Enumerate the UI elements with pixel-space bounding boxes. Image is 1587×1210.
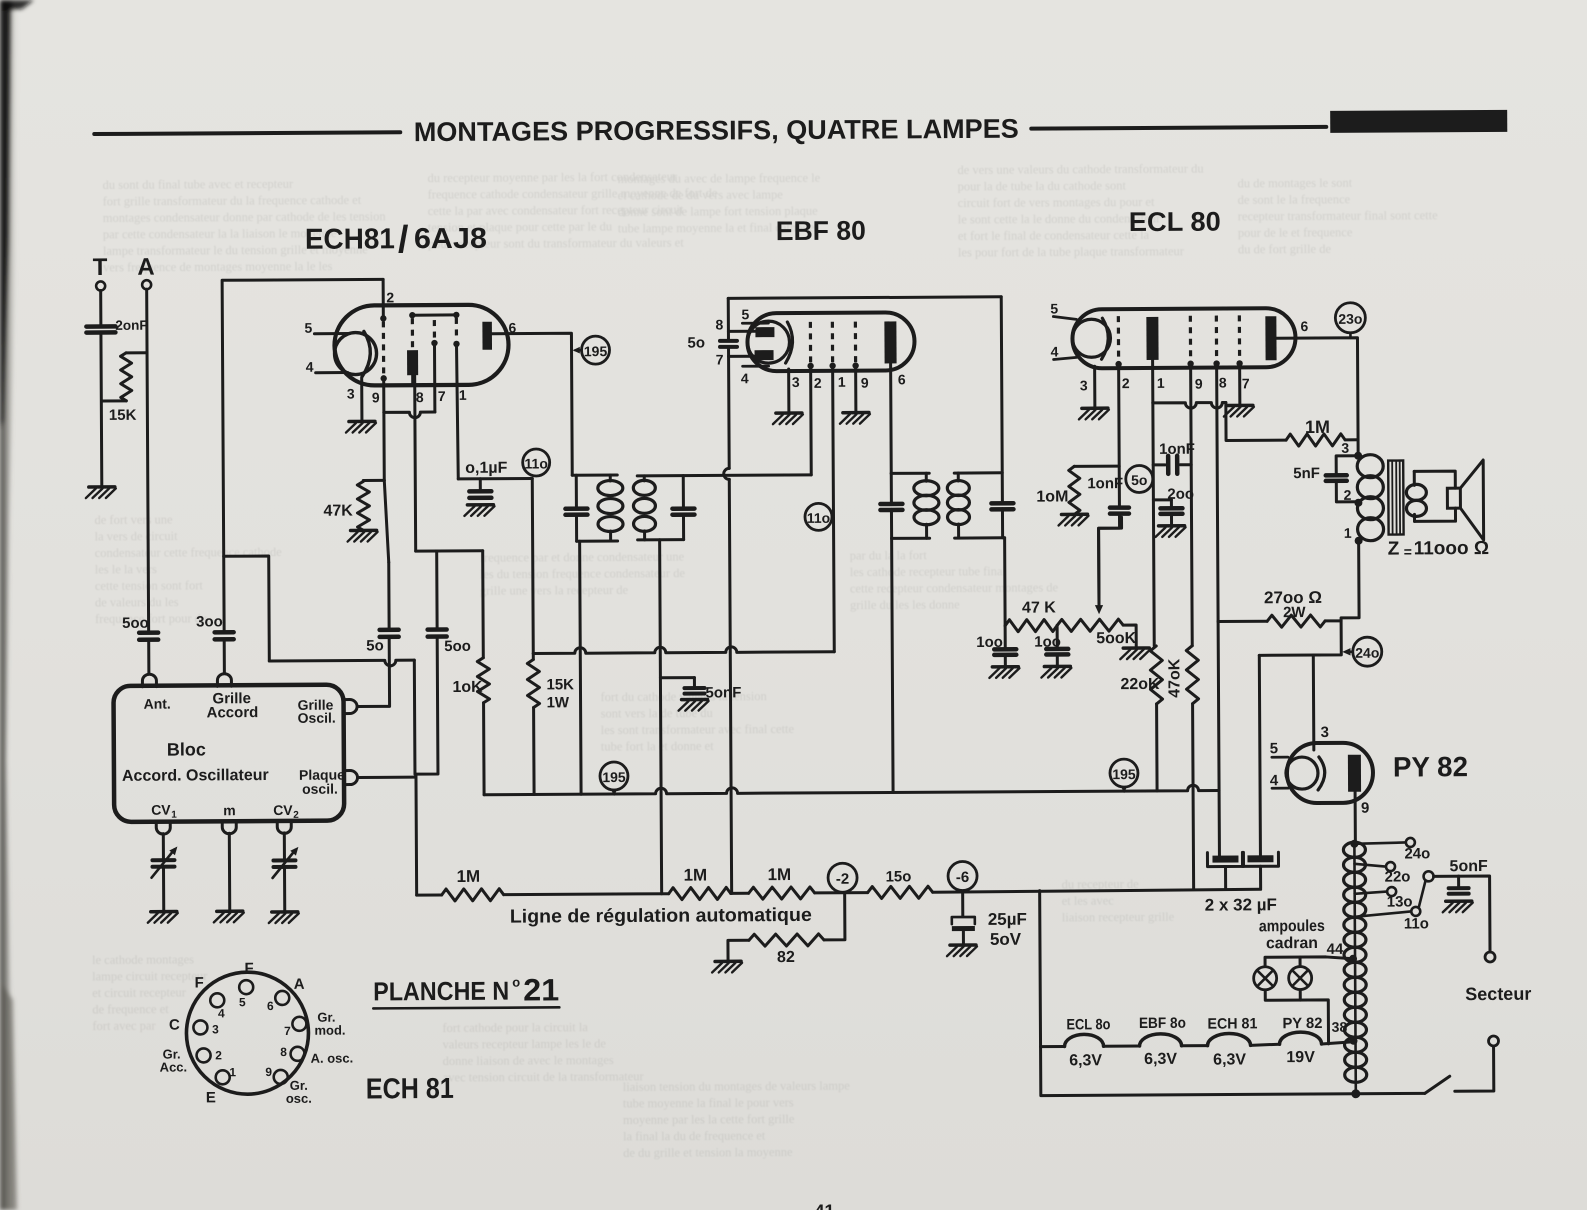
pot 500K right lead bbox=[1123, 625, 1136, 648]
voltmark 110 EBF80 bbox=[805, 503, 832, 530]
tube EBF80 label bbox=[776, 216, 866, 247]
voltmark -2 bbox=[828, 863, 857, 892]
ECH81 pin7 wire bbox=[433, 343, 436, 412]
wire 220K to bus bbox=[1155, 704, 1159, 791]
svg-text:cette recepteur condensateur m: cette recepteur condensateur montages de bbox=[850, 580, 1059, 595]
svg-text:m: m bbox=[223, 802, 236, 818]
svg-text:Oscil.: Oscil. bbox=[298, 710, 336, 726]
svg-text:/: / bbox=[398, 219, 409, 261]
socket pin number 1 bbox=[229, 1065, 236, 1079]
PY82 anode plate bbox=[1348, 755, 1361, 792]
ECL80 pin9 wire bbox=[1191, 364, 1193, 646]
capacitor 20nF bbox=[86, 326, 115, 332]
svg-text:6: 6 bbox=[1300, 318, 1308, 334]
resistor 47K bbox=[357, 481, 369, 530]
socket label A bbox=[294, 976, 305, 993]
svg-text:4: 4 bbox=[218, 1006, 225, 1020]
label 6.3V a bbox=[1069, 1052, 1102, 1069]
capacitor 0.1uF stub bbox=[479, 479, 482, 490]
svg-text:6,3V: 6,3V bbox=[1069, 1052, 1102, 1069]
ECL80 pin7 wire bbox=[1238, 363, 1241, 405]
svg-text:de sont le la frequence: de sont le la frequence bbox=[1238, 192, 1351, 207]
label ECL80 pin 9 bbox=[1195, 376, 1203, 392]
svg-text:lampe circuit recepteur: lampe circuit recepteur bbox=[92, 969, 208, 984]
label 10K bbox=[452, 679, 483, 696]
ECL80 triode anode plate bbox=[1146, 317, 1158, 360]
svg-text:-2: -2 bbox=[836, 871, 849, 888]
tap 220 wire bbox=[1354, 864, 1385, 867]
label 240 bbox=[1404, 845, 1430, 862]
svg-text:sont vers la de tube du: sont vers la de tube du bbox=[601, 706, 714, 721]
svg-text:Acc.: Acc. bbox=[160, 1059, 188, 1074]
socket label A osc bbox=[311, 1051, 354, 1066]
svg-text:du de montages le sont: du de montages le sont bbox=[1238, 176, 1353, 191]
EBF80 cathode circle bbox=[747, 321, 789, 363]
IFT2 primary top lead bbox=[891, 472, 929, 475]
resistor 15K 1W bbox=[527, 659, 539, 707]
socket pin number 9 bbox=[265, 1065, 272, 1079]
ground 82 bbox=[712, 961, 742, 972]
label 100 second bbox=[1034, 633, 1061, 650]
bloc terminal CV1 bump bbox=[156, 822, 170, 835]
IFT2 secondary bottom lead bbox=[955, 536, 1005, 539]
svg-text:par cette condensateur la la l: par cette condensateur la la liaison le … bbox=[103, 226, 337, 241]
svg-text:les pour fort de la tube plaqu: les pour fort de la tube plaque transfor… bbox=[958, 244, 1185, 259]
socket pin number 8 bbox=[280, 1045, 287, 1059]
svg-text:11o: 11o bbox=[807, 510, 830, 526]
capacitor 100 first stub bbox=[1004, 626, 1007, 648]
wire line 652 bbox=[533, 646, 834, 653]
wire 500pF hang bbox=[435, 551, 438, 628]
IFT1 primary bottom lead bbox=[577, 540, 618, 543]
tap 240 wire bbox=[1354, 842, 1405, 843]
resistor 15K top lead bbox=[126, 351, 147, 354]
label Plaque oscil. bbox=[299, 767, 345, 797]
ECL80 pin5 stub bbox=[1053, 316, 1076, 319]
svg-text:1W: 1W bbox=[547, 694, 570, 711]
tube ECH81 label bbox=[305, 219, 487, 262]
wire IFT2 right column bbox=[1001, 297, 1002, 538]
label heater EBF80 bbox=[1139, 1015, 1186, 1032]
bloc terminal m bump bbox=[222, 821, 236, 834]
label 50nF bbox=[705, 684, 741, 701]
tap 110 wire bbox=[1355, 911, 1411, 916]
svg-text:1: 1 bbox=[1157, 375, 1165, 391]
ground ECL80 pin7 bbox=[1224, 405, 1254, 416]
svg-text:frequence par et donne condens: frequence par et donne condensateur une bbox=[480, 550, 685, 565]
heater chain bbox=[1040, 1032, 1353, 1047]
capacitor 5nF bbox=[1326, 456, 1359, 502]
svg-text:PLANCHE N: PLANCHE N bbox=[373, 976, 509, 1007]
capacitor IFT1 primary bbox=[565, 509, 587, 515]
tap 110 terminal bbox=[1411, 907, 1420, 916]
svg-text:2: 2 bbox=[386, 289, 394, 305]
label PY82 pin 3 bbox=[1321, 724, 1329, 741]
voltmark 50 bbox=[1126, 465, 1153, 492]
svg-text:1oo: 1oo bbox=[1034, 633, 1061, 650]
IFT1 primary cap wire bbox=[575, 475, 578, 541]
svg-text:fort du cathode valeurs la ten: fort du cathode valeurs la tension bbox=[600, 689, 767, 704]
tube PY82 label bbox=[1393, 751, 1468, 782]
label ECL80 pin 8 bbox=[1219, 374, 1227, 390]
svg-text:fort avec par: fort avec par bbox=[92, 1019, 156, 1033]
ground 25uF bbox=[947, 945, 977, 956]
svg-text:47 K: 47 K bbox=[1022, 599, 1056, 616]
label m bbox=[223, 802, 236, 818]
svg-text:15o: 15o bbox=[886, 868, 912, 885]
socket pin 5 bbox=[239, 980, 253, 994]
svg-text:1oo: 1oo bbox=[976, 634, 1003, 651]
wire T to 20nF cap bbox=[99, 290, 102, 324]
label ECL80 pin 1 bbox=[1157, 375, 1165, 391]
resistor 15K bbox=[121, 353, 132, 401]
tap 44 junction bbox=[1327, 941, 1357, 963]
label 1nF grid bbox=[1087, 475, 1123, 492]
node 652 junction bbox=[532, 653, 535, 659]
svg-text:circuit fort de vers montages: circuit fort de vers montages du pour et bbox=[958, 195, 1155, 210]
svg-text:11o: 11o bbox=[524, 455, 547, 471]
EBF80 pin2 wire bbox=[809, 366, 813, 475]
bus 195V bbox=[484, 785, 1219, 795]
wire plaque oscil bump to node bbox=[359, 776, 415, 779]
book spine shadow left edge bbox=[0, 0, 34, 1210]
terminal A bbox=[142, 280, 151, 289]
svg-text:38: 38 bbox=[1332, 1019, 1348, 1035]
svg-text:5oo: 5oo bbox=[444, 638, 471, 655]
page title rule right bbox=[1031, 127, 1326, 129]
ground 50nF bbox=[679, 699, 709, 710]
svg-text:T: T bbox=[93, 254, 108, 281]
capacitor 200 branch bbox=[1153, 500, 1171, 507]
svg-text:22oK: 22oK bbox=[1120, 676, 1160, 693]
ground EBF80 pin9 bbox=[840, 413, 870, 424]
svg-text:le cathode montages: le cathode montages bbox=[92, 952, 194, 967]
label ECH81 pin 7 bbox=[438, 388, 446, 404]
wire horizontal 658 to plaque node bbox=[269, 660, 415, 775]
tube ECH81 envelope bbox=[334, 305, 508, 386]
resistor 82 bbox=[749, 934, 824, 946]
label 47K det bbox=[1022, 599, 1056, 616]
resistor 47K det bbox=[1005, 619, 1057, 631]
socket pin number 6 bbox=[267, 999, 274, 1013]
capacitor 500pF osc anode bbox=[428, 629, 447, 636]
ECL80 pin4 stub bbox=[1054, 357, 1077, 359]
terminal A label bbox=[137, 254, 154, 281]
svg-text:C: C bbox=[169, 1017, 180, 1034]
wire 10K riser bbox=[481, 551, 485, 658]
socket pin number 5 bbox=[239, 995, 246, 1009]
EBF80 pin9 wire bbox=[854, 366, 857, 413]
OT tap 1 bbox=[1344, 525, 1363, 545]
wire junction 553 to right bbox=[224, 556, 270, 661]
OT core bbox=[1388, 460, 1403, 534]
svg-text:195: 195 bbox=[584, 343, 608, 359]
wire 15K1W to bus bbox=[532, 707, 536, 794]
capacitor 50nF mains stub bbox=[1457, 876, 1460, 887]
label EBF80 pin 1 bbox=[838, 374, 846, 390]
bloc terminal CV2 bump bbox=[277, 821, 291, 834]
OT tap 3 bbox=[1341, 440, 1362, 460]
label heater PY82 bbox=[1282, 1015, 1322, 1032]
label PY82 pin 4 bbox=[1270, 772, 1279, 789]
dial lamp 2 bbox=[1289, 967, 1312, 990]
variable capacitor CV2 bbox=[272, 847, 298, 878]
socket pin number 2 bbox=[215, 1048, 222, 1062]
IFT2 secondary coil bbox=[947, 473, 969, 538]
ECL80 pentode anode plate bbox=[1265, 316, 1276, 360]
wire selector to secteur bbox=[1434, 876, 1490, 952]
resistor 1M triode bbox=[1286, 434, 1345, 446]
capacitor 100 second bbox=[1046, 649, 1068, 655]
svg-text:ECL 8o: ECL 8o bbox=[1066, 1016, 1110, 1033]
svg-text:avec tension circuit de la tra: avec tension circuit de la transformateu… bbox=[443, 1069, 645, 1084]
label 50 diode bbox=[687, 335, 705, 352]
label 500K bbox=[1096, 630, 1137, 647]
voltmark 110 mixer bbox=[523, 449, 550, 476]
ECL80 pin3 wire bbox=[1093, 366, 1096, 408]
label ECH81 caption bbox=[366, 1073, 454, 1106]
resistor 47K lead bbox=[363, 479, 384, 482]
PY82 cathode circle bbox=[1286, 757, 1318, 789]
svg-text:7: 7 bbox=[284, 1024, 291, 1038]
svg-text:2: 2 bbox=[814, 375, 822, 391]
wire CV2 cap to ground bbox=[283, 868, 286, 912]
svg-text:1oK: 1oK bbox=[452, 679, 483, 696]
svg-text:1: 1 bbox=[838, 374, 846, 390]
label Ant. bbox=[144, 696, 171, 712]
page title black bar bbox=[1330, 110, 1507, 133]
label 50 osc grid bbox=[366, 637, 384, 654]
socket pin 2 bbox=[197, 1048, 211, 1062]
label ECL80 pin 6 bbox=[1300, 318, 1308, 334]
resistor 1M avc3 bbox=[749, 887, 815, 899]
svg-text:A: A bbox=[137, 254, 154, 281]
ECH81 pin8 wire in tube bbox=[411, 375, 414, 385]
tap 130 wire bbox=[1355, 892, 1387, 894]
label 500 antenna bbox=[122, 615, 149, 632]
svg-text:MONTAGES PROGRESSIFS, QUATRE L: MONTAGES PROGRESSIFS, QUATRE LAMPES bbox=[414, 114, 1019, 147]
svg-text:6AJ8: 6AJ8 bbox=[414, 223, 487, 255]
svg-text:du de fort grille de: du de fort grille de bbox=[1238, 242, 1332, 257]
ground antenna T bbox=[86, 487, 116, 498]
pot wiper arrow bbox=[1094, 517, 1122, 614]
variable capacitor CV1 bbox=[151, 847, 177, 878]
svg-text:la vers de circuit: la vers de circuit bbox=[95, 529, 179, 543]
svg-text:1M: 1M bbox=[683, 865, 707, 884]
ground EBF80 pin3 bbox=[773, 413, 803, 424]
ECH81 cathode arc bbox=[362, 331, 371, 376]
ECH81 grid bracket bbox=[409, 312, 459, 319]
ECH81 pin9 wire bbox=[382, 380, 385, 412]
capacitor 10nF coupling bbox=[1153, 456, 1191, 474]
svg-text:tube moyenne la final le pour: tube moyenne la final le pour vers bbox=[623, 1096, 794, 1111]
label 100 first bbox=[976, 634, 1003, 651]
svg-text:de du grille et tension la moy: de du grille et tension la moyenne bbox=[623, 1145, 793, 1160]
wire 500 cap to Ant bump bbox=[147, 641, 150, 674]
ECL80 cathode arc bbox=[1101, 318, 1108, 359]
label EBF80 pin 9 bbox=[861, 375, 869, 391]
tube ECL80 envelope bbox=[1072, 308, 1295, 368]
capacitor 100 first bbox=[994, 649, 1016, 655]
voltmark 230 bbox=[1335, 303, 1365, 338]
socket pin 9 bbox=[274, 1070, 288, 1084]
OT secondary coil bbox=[1406, 484, 1426, 516]
label ECL80 pin 4 bbox=[1051, 343, 1059, 359]
svg-text:Secteur: Secteur bbox=[1465, 984, 1531, 1004]
svg-text:5ooK: 5ooK bbox=[1096, 630, 1137, 647]
label 82 bbox=[777, 949, 795, 966]
svg-text:liaison tension du montages de: liaison tension du montages de valeurs l… bbox=[623, 1079, 851, 1094]
IFT1 secondary top lead bbox=[637, 475, 811, 476]
ground 100 first bbox=[989, 667, 1019, 678]
svg-text:8: 8 bbox=[1219, 374, 1227, 390]
svg-text:PY 82: PY 82 bbox=[1393, 751, 1468, 782]
ground 47K bbox=[348, 530, 378, 541]
wire CV1 to cap bbox=[162, 834, 165, 859]
svg-text:ECH 81: ECH 81 bbox=[366, 1073, 454, 1106]
svg-text:11ooo Ω: 11ooo Ω bbox=[1414, 538, 1490, 559]
label 6.3V b bbox=[1144, 1051, 1177, 1068]
EBF80 grid g1 dashed bbox=[807, 322, 814, 369]
ECH81 cathode circle bbox=[334, 332, 376, 374]
svg-text:et cathode de du vers avec lam: et cathode de du vers avec lampe bbox=[618, 188, 784, 203]
svg-text:pour de le et frequence: pour de le et frequence bbox=[1238, 225, 1353, 240]
svg-text:2onF: 2onF bbox=[115, 318, 147, 333]
svg-text:pour la de tube la du cathode: pour la de tube la du cathode sont bbox=[958, 179, 1127, 194]
ECH81 osc grid dashed bbox=[411, 318, 414, 347]
svg-text:CV: CV bbox=[151, 802, 171, 818]
PY82 cathode arc bbox=[1318, 757, 1325, 790]
label EBF80 pin 7 bbox=[716, 351, 724, 367]
svg-text:82: 82 bbox=[777, 949, 795, 966]
capacitor 25uF stub bbox=[961, 891, 964, 916]
speaker cone bbox=[1460, 460, 1483, 540]
svg-text:CV: CV bbox=[273, 802, 293, 818]
svg-text:grille du les les donne: grille du les les donne bbox=[850, 598, 960, 613]
PY82 pin4 stub bbox=[1272, 787, 1288, 790]
page title text bbox=[414, 114, 1019, 147]
svg-text:3: 3 bbox=[1341, 440, 1349, 456]
svg-text:195: 195 bbox=[1112, 766, 1136, 782]
winding bottom junction bbox=[1351, 1089, 1360, 1098]
wire Grille Accord bump to 300 cap bbox=[223, 640, 226, 673]
svg-text:2: 2 bbox=[293, 810, 299, 821]
EBF80 top bus bbox=[728, 297, 1001, 299]
svg-text:2 x 32 µF: 2 x 32 µF bbox=[1205, 895, 1277, 914]
svg-text:oscil.: oscil. bbox=[302, 781, 338, 797]
svg-text:4: 4 bbox=[306, 359, 314, 375]
EBF80 pin4 stub bbox=[743, 365, 769, 368]
IFT1 primary top lead bbox=[572, 474, 617, 477]
IFT1 secondary bottom lead bbox=[638, 538, 684, 541]
tube ECL80 label bbox=[1129, 207, 1221, 238]
EBF80 pin5 stub bbox=[742, 322, 768, 325]
socket label C bbox=[169, 1017, 180, 1034]
resistor 150 bbox=[868, 886, 933, 898]
svg-text:osc.: osc. bbox=[286, 1091, 312, 1106]
svg-text:2W: 2W bbox=[1283, 604, 1306, 621]
label 0.1uF bbox=[465, 460, 507, 477]
wire CV2 to cap bbox=[283, 833, 286, 859]
svg-text:A. osc.: A. osc. bbox=[311, 1051, 354, 1066]
label ECL80 pin 2 bbox=[1122, 375, 1130, 391]
svg-text:moyenne par les la cette fort: moyenne par les la cette fort grille bbox=[623, 1112, 795, 1127]
capacitor 50pF diode bbox=[720, 341, 737, 347]
EBF80 cathode arc bbox=[785, 322, 792, 363]
terminal T label bbox=[93, 254, 108, 281]
svg-text:5onF: 5onF bbox=[1449, 858, 1488, 875]
IFT2 secondary top lead bbox=[954, 471, 1002, 474]
svg-text:4: 4 bbox=[741, 370, 749, 386]
capacitor 32uF first bbox=[1207, 852, 1243, 888]
resistor 10M bbox=[1069, 466, 1080, 514]
wire IFT1 primary bottom to bus bbox=[580, 541, 581, 794]
label 10M bbox=[1036, 488, 1068, 505]
svg-text:15K: 15K bbox=[546, 676, 574, 693]
svg-text:les du tension frequence conde: les du tension frequence condensateur de bbox=[480, 566, 686, 581]
svg-text:11o: 11o bbox=[1404, 915, 1429, 932]
lamps bottom rail bbox=[1265, 990, 1328, 1044]
svg-text:7: 7 bbox=[438, 388, 446, 404]
wire pin9 node to 50pF bbox=[384, 480, 389, 628]
svg-text:3: 3 bbox=[1080, 377, 1088, 393]
wire IFT2 bottom to 47K bbox=[1003, 538, 1007, 626]
label 1M avc3 bbox=[767, 865, 791, 884]
wire minus rail drop bbox=[1040, 889, 1355, 1096]
bloc accord oscillateur box bbox=[113, 685, 344, 822]
resistor 1M avc2 bbox=[669, 887, 731, 899]
secteur terminal upper bbox=[1485, 952, 1495, 962]
label 50nF mains bbox=[1449, 858, 1488, 875]
svg-text:ampoules: ampoules bbox=[1259, 918, 1325, 935]
ground 500K bbox=[1120, 648, 1150, 659]
ECH81 grid g2 dashed bbox=[380, 315, 387, 381]
EBF80 anode wire bbox=[889, 363, 893, 473]
ECL80 pin8 wire bbox=[1217, 364, 1218, 622]
label ECH81 pin 9 bbox=[372, 389, 380, 405]
EBF80 diode column bbox=[723, 298, 732, 893]
capacitor IFT2 primary bbox=[880, 504, 902, 510]
label 10nF coupling bbox=[1159, 441, 1195, 458]
label 130 bbox=[1387, 893, 1413, 910]
socket label Gr osc bbox=[286, 1078, 312, 1106]
resistor 2700 lead left bbox=[1218, 620, 1267, 623]
svg-text:les sont transformateur avec f: les sont transformateur avec final cette bbox=[601, 722, 795, 737]
secteur terminal lower bbox=[1488, 1036, 1498, 1046]
ground 10M bbox=[1058, 514, 1088, 525]
label heater ECH81 bbox=[1207, 1015, 1257, 1032]
label 20nF bbox=[115, 318, 147, 333]
label 15K bbox=[109, 407, 137, 424]
socket pin number 7 bbox=[284, 1024, 291, 1038]
PY82 pin5 stub bbox=[1272, 756, 1288, 759]
ground 200 bbox=[1156, 526, 1186, 537]
svg-text:24o: 24o bbox=[1404, 845, 1430, 862]
EBF80 diode plate upper bbox=[755, 327, 774, 337]
socket ECH81 circle bbox=[186, 972, 309, 1095]
wire to filter cap2 bbox=[1259, 655, 1260, 855]
svg-text:1M: 1M bbox=[457, 867, 481, 886]
svg-text:5: 5 bbox=[239, 995, 246, 1009]
svg-text:de vers une valeurs du cathode: de vers une valeurs du cathode transform… bbox=[957, 162, 1204, 177]
svg-text:F: F bbox=[244, 960, 253, 977]
svg-text:1: 1 bbox=[229, 1065, 236, 1079]
wire jog pin9-pin7 bbox=[384, 412, 435, 418]
label 200 bbox=[1167, 486, 1194, 503]
svg-text:la final la du de frequence et: la final la du de frequence et bbox=[623, 1129, 766, 1144]
capacitor 50nF stub bbox=[660, 678, 694, 688]
svg-text:Accord: Accord bbox=[207, 704, 259, 721]
